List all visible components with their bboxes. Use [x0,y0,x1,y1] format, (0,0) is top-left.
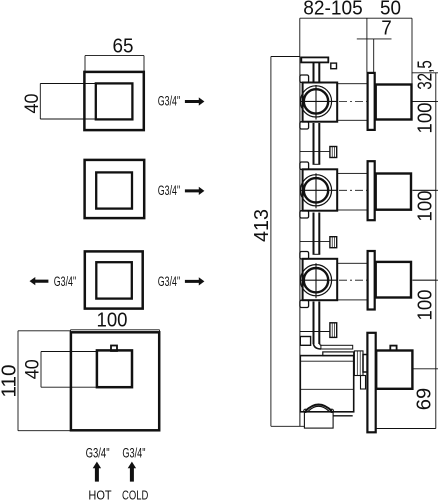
trim plate 1 outer square [84,72,143,130]
trim plate 1 inner square [96,83,133,119]
arrow up cold [128,462,136,482]
dim 7 leader [357,38,392,40]
svg-text:82-105: 82-105 [303,0,363,20]
dim 413 dimension lines [271,57,305,427]
valve 2 body box [303,169,338,210]
svg-text:100: 100 [415,103,437,134]
valve 2 top-left tab [300,162,309,170]
valve module 2 [300,161,436,220]
valve module 3 [300,251,436,310]
valve 3 flange plate [368,251,375,310]
rail division line 1 [300,151,330,153]
valve 1 bottom-left tab [300,122,309,129]
arrow right row1 [185,97,205,105]
valve 3 crosshair [300,279,338,281]
arrow right row3 [185,277,205,285]
valve module 1 [300,73,436,130]
svg-text:65: 65 [113,36,134,58]
svg-text:100: 100 [415,290,437,321]
svg-text:100: 100 [415,191,437,222]
svg-text:G3/4": G3/4" [158,183,180,198]
trim plate 3 outer square [85,251,143,308]
arrow right row2 [185,187,205,195]
svg-text:40: 40 [21,93,43,113]
arrow up hot [93,462,101,482]
valve 2 bottom-left tab [300,211,309,218]
thermostat handle box [376,351,412,389]
svg-text:7: 7 [381,18,392,40]
thermostat elbow curve [313,343,321,350]
dim 100 dimension lines [71,330,160,333]
trim plate 3 inner square [96,262,132,298]
valve 1 centerline dashes [339,100,367,102]
valve 1 flange plate [368,73,375,130]
svg-text:G3/4": G3/4" [158,274,180,289]
trim plate 2 inner square [96,172,132,208]
valve 3 top-left tab [300,252,309,260]
thermostat inlet nut [300,337,310,346]
rail division line 2 [300,241,330,243]
svg-text:100: 100 [97,310,128,332]
valve 2 crosshair [300,189,338,191]
svg-text:40: 40 [22,359,44,379]
dim 40 dimension lines (main plate) [41,352,97,388]
dim 65 dimension lines [85,56,144,72]
valve 3 stem housing [337,263,368,300]
valve 2 stem housing [337,173,368,210]
trim plate 2 outer square [85,160,145,218]
valve 3 centerline extension [412,279,435,281]
svg-text:413: 413 [251,209,273,242]
thermostat main body [300,356,353,412]
valve 2 centerline dashes [339,189,367,191]
temperature handle knob tab [111,346,117,352]
valve 1 top-left tab [300,75,309,83]
pipe above valve 1 [314,62,320,81]
thermostat body lines [300,360,353,362]
svg-text:G3/4": G3/4" [158,93,180,108]
valve 3 body box [303,259,338,300]
valve 1 centerline extension [412,100,435,102]
top inlet cap [301,57,328,62]
svg-text:COLD: COLD [122,488,148,503]
valve 2 centerline extension [412,189,435,191]
thermostat outlet stub [304,412,333,428]
temperature handle square [97,350,132,387]
union nut 3 [330,323,337,338]
svg-text:HOT: HOT [88,488,111,503]
thermostat bottom dome [305,405,331,412]
thermostat right adapter [354,351,363,376]
valve 2 handle box [376,174,411,210]
valve 3 centerline dashes [339,279,367,281]
svg-text:32,5: 32,5 [415,60,437,90]
valve 3 handle box [376,262,411,298]
valve 3 cartridge circles [300,265,331,296]
valve 2 cartridge circles [300,175,331,206]
thermostat bottom assembly [300,333,412,433]
pipe between valve1-valve2 [313,123,321,164]
mounting rail [299,57,301,427]
top union nut [331,63,337,69]
svg-text:G3/4": G3/4" [122,445,145,460]
dim 82-105 / 50 dimension lines [300,18,412,102]
thermostat top bar 2 [323,352,354,356]
thermostat stem nut [363,355,367,373]
thermostat flange plate [367,333,375,433]
svg-text:G3/4": G3/4" [54,274,76,289]
right dim stack lines [376,73,438,429]
valve 1 body box [303,83,338,122]
dim 110 dimension lines [18,331,71,431]
thermostat bottom shelf [333,415,353,417]
pipe between valve2-valve3 [313,213,321,255]
union nut 2 [330,237,337,248]
union nut 1 [330,147,337,158]
main plate square [71,332,159,430]
rail division line 3 [300,331,330,333]
thermostat top bar 1 [321,345,353,349]
valve 1 cartridge circles [300,86,331,117]
svg-text:69: 69 [414,388,436,411]
thermostat lower nut [361,376,366,390]
thermostat knob tab [390,346,396,351]
valve 2 flange plate [368,161,375,220]
valve 3 bottom-left tab [300,300,309,307]
dim 40 dimension lines (top square) [40,84,95,120]
valve 1 crosshair [300,100,338,102]
valve 1 stem housing [337,84,368,121]
svg-text:G3/4": G3/4" [86,445,110,460]
valve 1 handle box [376,85,412,120]
arrow left row3 [30,277,49,285]
svg-text:110: 110 [0,364,21,397]
pipe between valve3-bottom [314,302,320,345]
